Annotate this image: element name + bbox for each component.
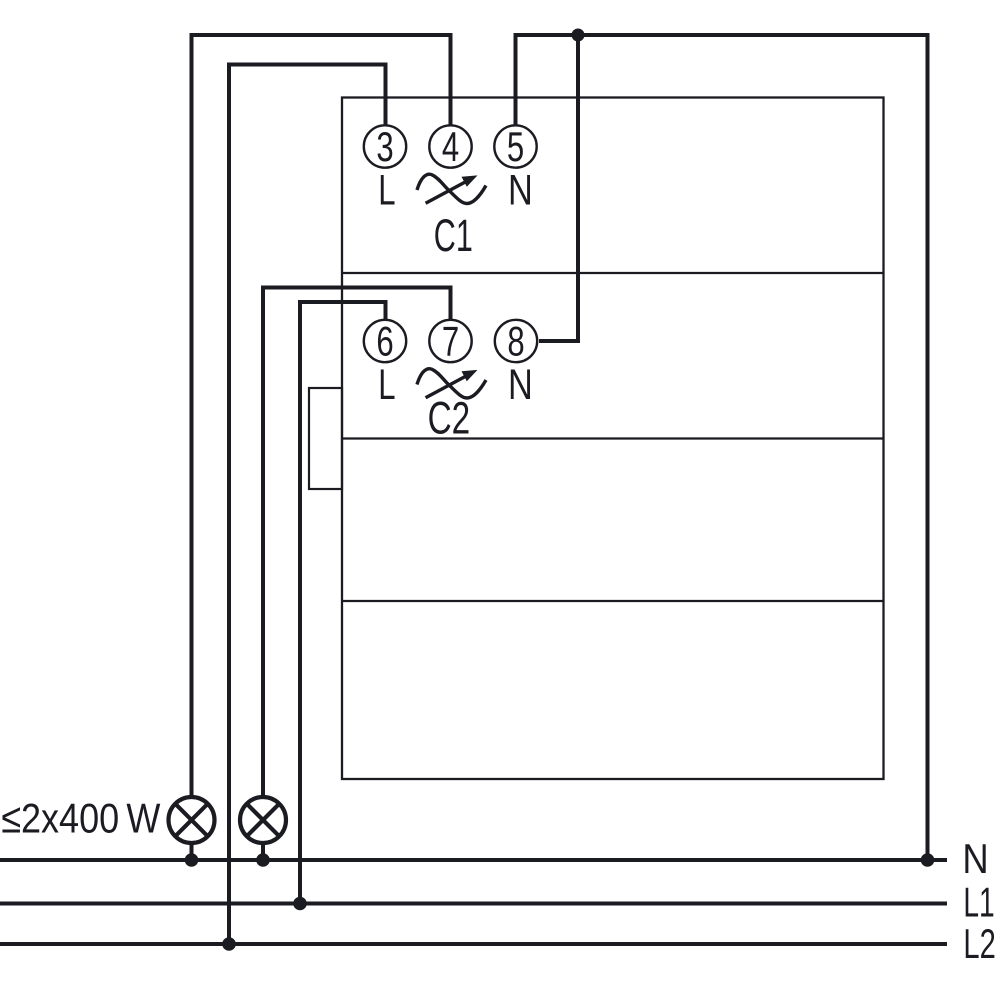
junction dot on L1 (293, 897, 307, 911)
svg-text:≤2x400 W: ≤2x400 W (1, 795, 160, 842)
terminal 7 (429, 320, 471, 362)
lamp E2 cross (247, 804, 280, 837)
device divider 3 (342, 600, 884, 602)
svg-text:L2: L2 (963, 920, 995, 967)
lamp E1 (169, 797, 215, 843)
dimmer symbol C1 sine (417, 174, 486, 203)
dimmer symbol C2 sine (417, 369, 486, 398)
svg-text:C2: C2 (428, 393, 471, 444)
svg-text:7: 7 (442, 318, 459, 365)
svg-text:N: N (508, 361, 533, 409)
junction dot top (572, 29, 585, 42)
lamp E2 (240, 797, 286, 843)
supply line L2 (0, 942, 947, 946)
lamp E1 stem (190, 843, 194, 860)
junction dot lamp E2 on N (256, 853, 270, 867)
dimmer symbol C2 arrowhead (462, 370, 478, 381)
device box (342, 98, 884, 780)
device divider 1 (342, 272, 884, 274)
junction dot on L2 (222, 937, 236, 951)
junction dot lamp E1 on N (185, 853, 199, 867)
svg-text:C1: C1 (434, 210, 473, 261)
wire T6 to L1 (300, 302, 386, 904)
wire T7 to lamp E2 (263, 288, 451, 798)
svg-text:N: N (962, 835, 988, 882)
svg-text:L: L (378, 361, 395, 409)
mounting tab (309, 388, 342, 489)
terminal 4 (429, 125, 471, 167)
svg-text:4: 4 (442, 123, 459, 170)
dimmer symbol C2 arrow (426, 375, 468, 398)
svg-text:5: 5 (507, 123, 524, 170)
dimmer symbol C1 arrow (426, 181, 468, 204)
junction dot on N right (921, 853, 935, 867)
supply line N (0, 858, 947, 862)
lamp E1 cross (175, 804, 208, 837)
device divider 2 (342, 437, 884, 439)
terminal 5 (494, 125, 536, 167)
terminal 6 (364, 320, 406, 362)
wire branch to T8 (539, 35, 578, 341)
svg-text:6: 6 (376, 318, 393, 365)
svg-text:L1: L1 (963, 879, 994, 926)
wire T3 to L2 (229, 65, 386, 945)
terminal 3 (364, 125, 406, 167)
svg-text:8: 8 (507, 318, 524, 365)
wire T5 to N (516, 35, 928, 860)
terminal 8 (495, 320, 537, 362)
wire T4 to lamp E1 (192, 35, 451, 797)
svg-text:N: N (508, 167, 533, 215)
supply line L1 (0, 902, 947, 906)
svg-text:3: 3 (376, 123, 393, 170)
dimmer symbol C1 arrowhead (462, 175, 478, 186)
svg-text:L: L (378, 167, 395, 215)
lamp E2 stem (261, 843, 265, 860)
